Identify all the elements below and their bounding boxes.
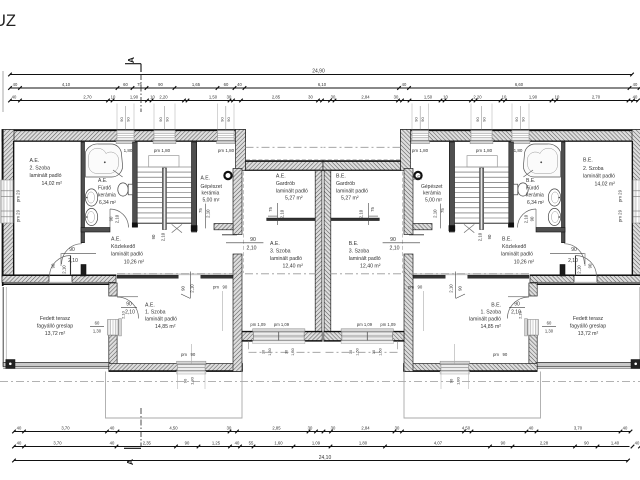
- svg-text:1,50: 1,50: [379, 348, 383, 355]
- svg-text:10,26 m²: 10,26 m²: [514, 259, 535, 265]
- svg-text:fagyálló greslap: fagyálló greslap: [570, 324, 606, 330]
- svg-text:2. Szoba: 2. Szoba: [583, 166, 604, 172]
- svg-text:40: 40: [235, 441, 240, 446]
- svg-text:6,60: 6,60: [515, 82, 524, 87]
- svg-text:pm 1,09: pm 1,09: [250, 322, 266, 327]
- svg-text:2,20: 2,20: [473, 95, 482, 100]
- svg-text:6,10: 6,10: [318, 82, 327, 87]
- svg-text:60: 60: [95, 321, 100, 326]
- svg-text:1,50: 1,50: [209, 95, 218, 100]
- svg-text:Gardrób: Gardrób: [276, 181, 295, 187]
- svg-text:10: 10: [555, 95, 560, 100]
- svg-text:90: 90: [51, 263, 56, 268]
- svg-text:2,70: 2,70: [83, 95, 92, 100]
- svg-text:75: 75: [440, 208, 445, 213]
- svg-text:B.E.: B.E.: [349, 241, 359, 247]
- svg-text:12,40 m²: 12,40 m²: [360, 264, 381, 270]
- svg-text:2,10: 2,10: [358, 209, 363, 218]
- svg-text:30: 30: [331, 95, 336, 100]
- svg-text:40: 40: [237, 82, 242, 87]
- svg-text:1,90: 1,90: [529, 95, 538, 100]
- svg-text:1,80: 1,80: [514, 148, 523, 153]
- svg-text:40: 40: [635, 441, 640, 446]
- svg-text:kerámia: kerámia: [423, 191, 441, 197]
- svg-text:90: 90: [414, 117, 419, 122]
- svg-text:2,85: 2,85: [272, 426, 281, 431]
- svg-text:2,10: 2,10: [568, 258, 578, 264]
- svg-text:13,72 m²: 13,72 m²: [45, 331, 66, 337]
- svg-text:3. Szoba: 3. Szoba: [270, 249, 291, 255]
- svg-text:2,84: 2,84: [361, 426, 370, 431]
- svg-text:90: 90: [390, 237, 396, 243]
- svg-text:pm 1,09: pm 1,09: [380, 322, 396, 327]
- svg-text:4,50: 4,50: [169, 426, 178, 431]
- svg-text:2,10: 2,10: [115, 214, 120, 223]
- svg-text:2,10: 2,10: [577, 265, 582, 274]
- svg-text:75: 75: [137, 82, 142, 87]
- svg-text:3,70: 3,70: [53, 441, 62, 446]
- svg-text:90: 90: [119, 117, 124, 122]
- svg-text:30: 30: [395, 426, 400, 431]
- svg-text:Fürdő: Fürdő: [526, 185, 539, 191]
- svg-text:2,28: 2,28: [540, 441, 549, 446]
- svg-text:1,30: 1,30: [456, 376, 461, 385]
- svg-text:1,65: 1,65: [192, 82, 201, 87]
- svg-text:90: 90: [69, 247, 75, 253]
- svg-text:90: 90: [126, 302, 132, 308]
- svg-text:UZ: UZ: [0, 12, 16, 30]
- svg-text:pm 1,80: pm 1,80: [218, 148, 235, 153]
- svg-text:90: 90: [158, 82, 163, 87]
- svg-text:3. Szoba: 3. Szoba: [349, 249, 370, 255]
- svg-text:B.E.: B.E.: [336, 173, 346, 179]
- svg-text:2,10: 2,10: [68, 258, 78, 264]
- svg-text:5,27 m²: 5,27 m²: [285, 196, 303, 202]
- svg-text:pm 1,09: pm 1,09: [357, 322, 373, 327]
- svg-text:laminált padló: laminált padló: [469, 317, 501, 323]
- svg-text:90: 90: [503, 352, 508, 357]
- svg-text:A.E.: A.E.: [276, 173, 286, 179]
- svg-text:30: 30: [308, 95, 313, 100]
- svg-text:laminált padló: laminált padló: [349, 256, 381, 262]
- svg-text:5,00 m²: 5,00 m²: [203, 198, 220, 204]
- svg-text:2,10: 2,10: [161, 232, 166, 241]
- svg-text:90: 90: [420, 117, 425, 122]
- svg-text:13,72 m²: 13,72 m²: [578, 331, 599, 337]
- svg-text:1,80: 1,80: [359, 441, 368, 446]
- svg-text:90: 90: [151, 234, 156, 239]
- svg-text:75: 75: [268, 207, 273, 212]
- svg-text:90: 90: [449, 378, 454, 383]
- svg-text:6,34 m²: 6,34 m²: [99, 200, 116, 206]
- svg-text:Közlekedő: Közlekedő: [111, 244, 135, 250]
- svg-text:1,90: 1,90: [130, 95, 139, 100]
- svg-text:3,70: 3,70: [574, 426, 583, 431]
- svg-text:laminált padló: laminált padló: [583, 174, 615, 180]
- svg-text:kerámia: kerámia: [98, 193, 116, 199]
- svg-text:90: 90: [418, 285, 423, 290]
- svg-text:90: 90: [158, 117, 163, 122]
- svg-text:24,10: 24,10: [319, 455, 332, 461]
- svg-text:laminált padló: laminált padló: [501, 252, 533, 258]
- svg-text:Gépészet: Gépészet: [421, 184, 443, 190]
- svg-text:B.E.: B.E.: [526, 178, 535, 184]
- svg-text:40: 40: [17, 426, 22, 431]
- svg-text:pm 1,80: pm 1,80: [476, 148, 493, 153]
- svg-text:B.E.: B.E.: [502, 237, 512, 243]
- svg-text:30: 30: [394, 95, 399, 100]
- svg-text:laminált padló: laminált padló: [336, 188, 368, 194]
- svg-text:A.E.: A.E.: [145, 303, 155, 309]
- svg-text:2,10: 2,10: [433, 209, 438, 218]
- svg-text:1,50: 1,50: [268, 348, 272, 355]
- svg-text:1. Szoba: 1. Szoba: [145, 310, 166, 316]
- svg-text:90: 90: [584, 441, 589, 446]
- svg-text:A.E.: A.E.: [201, 176, 210, 182]
- svg-text:Fürdő: Fürdő: [98, 185, 111, 191]
- svg-text:90: 90: [458, 286, 463, 291]
- svg-text:A.E.: A.E.: [30, 158, 40, 164]
- svg-text:laminált padló: laminált padló: [145, 317, 177, 323]
- svg-text:30: 30: [227, 426, 232, 431]
- svg-text:2. Szoba: 2. Szoba: [30, 166, 51, 172]
- svg-text:40: 40: [12, 95, 17, 100]
- svg-text:1,25: 1,25: [212, 441, 221, 446]
- svg-text:2,10: 2,10: [478, 232, 483, 241]
- svg-text:55: 55: [249, 441, 254, 446]
- svg-text:12,40 m²: 12,40 m²: [283, 264, 304, 270]
- svg-text:90: 90: [165, 117, 170, 122]
- svg-text:90: 90: [571, 247, 577, 253]
- svg-text:2,10: 2,10: [518, 310, 523, 319]
- svg-text:4,07: 4,07: [434, 441, 443, 446]
- svg-text:A: A: [125, 459, 135, 465]
- svg-text:3,70: 3,70: [61, 426, 70, 431]
- svg-text:1,80: 1,80: [124, 148, 133, 153]
- svg-text:90: 90: [219, 117, 224, 122]
- svg-text:10: 10: [502, 95, 507, 100]
- svg-text:fagyálló greslap: fagyálló greslap: [37, 324, 73, 330]
- svg-text:90: 90: [475, 117, 480, 122]
- svg-text:Gardrób: Gardrób: [336, 181, 355, 187]
- svg-text:90: 90: [180, 286, 185, 291]
- svg-text:2,85: 2,85: [272, 95, 281, 100]
- svg-text:pm 1,09: pm 1,09: [274, 322, 290, 327]
- svg-text:2,35: 2,35: [143, 441, 152, 446]
- svg-text:40: 40: [623, 426, 628, 431]
- svg-text:40: 40: [110, 441, 115, 446]
- svg-text:laminált padló: laminált padló: [30, 173, 62, 179]
- svg-text:30: 30: [285, 350, 289, 354]
- svg-text:A.E.: A.E.: [111, 237, 121, 243]
- svg-text:40: 40: [633, 82, 638, 87]
- svg-text:90: 90: [588, 263, 593, 268]
- svg-text:90: 90: [514, 302, 520, 308]
- svg-text:10: 10: [443, 95, 448, 100]
- svg-text:75: 75: [198, 208, 203, 213]
- svg-text:2,10: 2,10: [125, 310, 135, 316]
- svg-text:90: 90: [226, 117, 231, 122]
- svg-text:laminált padló: laminált padló: [270, 256, 302, 262]
- svg-text:laminált padló: laminált padló: [111, 252, 143, 258]
- svg-text:1,50: 1,50: [291, 348, 295, 355]
- svg-text:2,20: 2,20: [159, 95, 168, 100]
- svg-text:40: 40: [402, 82, 407, 87]
- svg-text:pm 1,80: pm 1,80: [154, 148, 171, 153]
- svg-text:10,26 m²: 10,26 m²: [124, 259, 145, 265]
- svg-text:24,90: 24,90: [312, 69, 325, 75]
- svg-text:A.E.: A.E.: [270, 241, 280, 247]
- svg-text:40: 40: [529, 426, 534, 431]
- svg-text:2,10: 2,10: [246, 246, 256, 252]
- svg-text:90: 90: [501, 441, 506, 446]
- svg-text:14,02 m²: 14,02 m²: [42, 181, 63, 187]
- svg-text:B.E.: B.E.: [583, 158, 593, 164]
- svg-text:Közlekedő: Közlekedő: [502, 244, 526, 250]
- svg-text:Fedett terasz: Fedett terasz: [40, 316, 71, 322]
- svg-text:90: 90: [482, 117, 487, 122]
- svg-text:2,10: 2,10: [62, 265, 67, 274]
- svg-text:1,30: 1,30: [545, 329, 554, 334]
- svg-text:laminált padló: laminált padló: [276, 188, 308, 194]
- svg-text:2,84: 2,84: [361, 95, 370, 100]
- svg-text:B.E.: B.E.: [413, 176, 422, 182]
- svg-text:pm 29: pm 29: [618, 209, 623, 222]
- svg-text:pm: pm: [181, 352, 187, 357]
- svg-text:90: 90: [185, 441, 190, 446]
- svg-text:40: 40: [17, 441, 22, 446]
- svg-text:kerámia: kerámia: [526, 193, 544, 199]
- svg-text:90: 90: [514, 117, 519, 122]
- svg-text:2,10: 2,10: [389, 246, 399, 252]
- svg-text:90: 90: [126, 117, 131, 122]
- svg-text:6,34 m²: 6,34 m²: [527, 200, 544, 206]
- svg-text:30: 30: [227, 95, 232, 100]
- svg-text:pm 29: pm 29: [16, 209, 21, 222]
- svg-text:1,60: 1,60: [274, 441, 283, 446]
- svg-text:1,09: 1,09: [312, 441, 321, 446]
- svg-text:pm 29: pm 29: [16, 189, 21, 202]
- svg-text:90: 90: [487, 234, 492, 239]
- svg-text:1,30: 1,30: [190, 376, 195, 385]
- svg-text:2,10: 2,10: [206, 209, 211, 218]
- svg-text:60: 60: [547, 321, 552, 326]
- svg-text:5,00 m²: 5,00 m²: [425, 198, 442, 204]
- svg-text:10: 10: [150, 95, 155, 100]
- svg-text:30: 30: [262, 350, 266, 354]
- svg-text:4,50: 4,50: [462, 426, 471, 431]
- svg-text:1,50: 1,50: [356, 348, 360, 355]
- svg-text:90: 90: [250, 237, 256, 243]
- svg-text:2,10: 2,10: [190, 284, 195, 293]
- svg-text:90: 90: [183, 378, 188, 383]
- svg-text:10: 10: [111, 95, 116, 100]
- svg-text:kerámia: kerámia: [202, 191, 220, 197]
- svg-text:90: 90: [191, 352, 196, 357]
- svg-text:pm: pm: [493, 352, 499, 357]
- svg-text:1,40: 1,40: [611, 441, 620, 446]
- svg-text:1,30: 1,30: [93, 329, 102, 334]
- svg-text:14,85 m²: 14,85 m²: [155, 324, 176, 330]
- svg-text:30: 30: [331, 426, 336, 431]
- svg-text:90: 90: [521, 117, 526, 122]
- svg-text:pm: pm: [213, 285, 219, 290]
- svg-text:A: A: [126, 57, 136, 63]
- svg-text:Gépészet: Gépészet: [201, 184, 223, 190]
- svg-text:2,10: 2,10: [524, 214, 529, 223]
- svg-text:75: 75: [370, 207, 375, 212]
- svg-text:1. Szoba: 1. Szoba: [481, 310, 502, 316]
- svg-text:14,85 m²: 14,85 m²: [481, 324, 502, 330]
- svg-text:90: 90: [223, 285, 228, 290]
- svg-text:60: 60: [224, 82, 229, 87]
- svg-text:A.E.: A.E.: [98, 178, 107, 184]
- svg-text:14,02 m²: 14,02 m²: [595, 181, 616, 187]
- svg-text:40: 40: [13, 82, 18, 87]
- svg-text:Fedett terasz: Fedett terasz: [573, 316, 604, 322]
- svg-text:5,27 m²: 5,27 m²: [341, 196, 359, 202]
- svg-text:30: 30: [308, 426, 313, 431]
- svg-text:pm 1,80: pm 1,80: [412, 148, 429, 153]
- svg-text:pm: pm: [408, 285, 414, 290]
- svg-text:60: 60: [123, 82, 128, 87]
- svg-text:B.E.: B.E.: [491, 303, 501, 309]
- svg-text:2,70: 2,70: [592, 95, 601, 100]
- svg-text:40: 40: [110, 426, 115, 431]
- svg-text:pm 29: pm 29: [618, 189, 623, 202]
- svg-text:30: 30: [349, 350, 353, 354]
- svg-text:4,10: 4,10: [62, 82, 71, 87]
- svg-text:90: 90: [109, 216, 114, 221]
- svg-text:1,50: 1,50: [424, 95, 433, 100]
- svg-text:90: 90: [530, 216, 535, 221]
- svg-text:2,10: 2,10: [448, 284, 453, 293]
- svg-text:40: 40: [633, 95, 638, 100]
- svg-text:2,10: 2,10: [121, 310, 126, 319]
- svg-text:2,10: 2,10: [280, 209, 285, 218]
- svg-text:30: 30: [372, 350, 376, 354]
